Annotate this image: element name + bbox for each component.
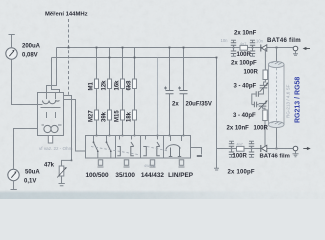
connector terminal under 100/500	[98, 160, 104, 167]
resistor 100R vertical top	[263, 70, 268, 80]
wire coupler right pin to 47k pot	[64, 96, 72, 161]
resistor 100R bottom series	[237, 146, 245, 151]
capacitor 10nF at node D (up)	[249, 141, 254, 148]
switch S3 contact b	[157, 136, 160, 156]
wire meter M2 top to coupler box	[14, 129, 38, 170]
coupling capacitor upper	[252, 88, 264, 105]
switch box	[86, 136, 191, 159]
connector terminal under LIN/PEP	[179, 160, 185, 167]
faint wire to switch box	[157, 58, 159, 136]
bottom scan band	[0, 190, 325, 199]
direction arrow (right)	[303, 147, 310, 150]
lower detector wire	[217, 148, 296, 150]
wire down to lower detector	[264, 121, 266, 149]
switch S1b	[106, 136, 112, 159]
coupler box	[38, 93, 64, 136]
mechanical link S3-S4 (dashed)	[147, 147, 168, 152]
capacitor 100pF at node C (down)	[229, 149, 234, 158]
switch S1a	[93, 136, 99, 159]
diode D1 BAT46	[261, 45, 267, 52]
mechanical link S1-S2 (dashed)	[91, 147, 138, 155]
junction dots on buses	[68, 47, 278, 150]
coax cylinder RG213	[268, 48, 284, 149]
ground stub at left of lower detector	[214, 149, 219, 171]
wire meter M1 bottom to coupler box	[12, 59, 38, 104]
electrolytic capacitor C1 20uF	[164, 48, 174, 136]
bus 2 (reflected sense)	[52, 57, 217, 59]
dashed measurement pointer line	[68, 19, 70, 95]
trimmer capacitor 3-40pF top	[260, 80, 269, 93]
wire from diode node down	[264, 48, 266, 70]
capacitor 10nF at node A (up)	[231, 40, 236, 47]
capacitor 100pF at node A (down)	[231, 48, 236, 57]
resistor column 4 (6k8 / 18k)	[133, 48, 137, 136]
wire meter M2 bottom terminal	[11, 181, 17, 190]
trimmer pot 47k	[57, 160, 71, 185]
resistor 100R vertical bottom	[263, 110, 268, 121]
switch S3 contact a	[143, 136, 146, 156]
resistor column 2 (12k / 39k)	[108, 48, 112, 136]
coupler output stub	[48, 136, 52, 144]
wire meter M1 top with terminal bar	[9, 35, 15, 48]
transformer T1 windings	[38, 93, 61, 108]
output connector J1	[293, 46, 298, 55]
transformer T2 windings	[42, 112, 62, 133]
resistor column 1 (M1 / M27)	[95, 48, 99, 136]
connector terminal under 35/100	[124, 160, 130, 167]
bus 1 left drop into coupler	[47, 48, 57, 93]
bus 1 (forward sense)	[57, 47, 296, 49]
ground at switch box right	[191, 148, 202, 155]
switch S2 contact a	[117, 136, 120, 156]
switch S2 contact b	[131, 136, 134, 156]
resistor column 3 (16k / M15)	[121, 48, 125, 136]
bus 2 right drop to lower detector	[216, 58, 218, 149]
diode D2 BAT46	[261, 145, 267, 152]
junction	[71, 160, 73, 162]
switch box dividers	[116, 136, 164, 159]
output connector J2	[293, 146, 299, 157]
trimmer capacitor 3-40pF bottom	[259, 100, 268, 110]
connector terminal under 144/432	[150, 160, 156, 167]
direction arrow (left)	[303, 47, 310, 50]
meter M2 50uA	[8, 169, 19, 180]
capacitor 100pF at node B (down)	[250, 48, 255, 57]
switch S4 link (LIN/PEP)	[166, 136, 182, 157]
wire coupler right pin to switch box	[64, 100, 86, 152]
capacitor 10nF at node B (up)	[250, 40, 255, 47]
coupling capacitor lower	[252, 102, 259, 108]
electrolytic capacitor C2 20uF	[178, 48, 188, 136]
bus 2 left drop into coupler	[52, 58, 60, 93]
meter M1 200uA	[6, 48, 17, 59]
capacitor 100pF at node D (down)	[249, 149, 254, 158]
capacitor 10nF at node C (up)	[229, 141, 234, 148]
resistor 100R top series	[240, 45, 248, 50]
